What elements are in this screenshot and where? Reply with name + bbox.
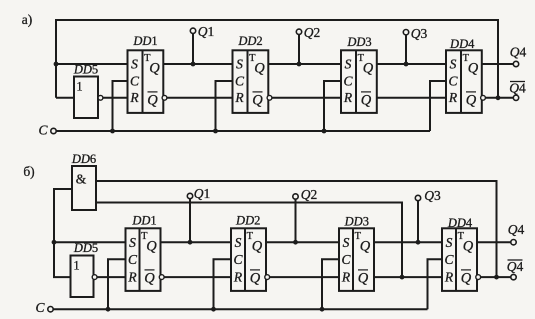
svg-text:Q: Q [363,60,374,76]
svg-text:DD3: DD3 [344,215,369,229]
svg-text:Q: Q [468,60,479,76]
inverter DD5 (circuit b) [71,241,99,297]
svg-text:Q2: Q2 [304,25,321,40]
svg-text:DD5: DD5 [73,241,98,255]
wire Q(DD4) to terminal Q4 (circuit a) [482,63,514,65]
C drop DD4 (circuit b) [428,259,443,309]
C drop DD3 (circuit b) [322,259,339,309]
svg-text:Q1: Q1 [198,24,215,39]
terminal Q1 (circuit b) [187,186,210,242]
svg-text:R: R [233,269,243,284]
svg-text:R: R [341,269,351,284]
svg-text:C: C [38,123,48,138]
wire Q(DD3) to S(DD4) (circuit b) [374,241,442,243]
terminal Q4-bar (circuit b) [507,259,524,280]
terminal C (circuit a) [38,123,56,138]
terminal Q4 (circuit a) [510,45,527,67]
svg-text:Q: Q [146,238,157,254]
wire Q(DD1) to S(DD2) (circuit b) [161,241,232,243]
svg-text:R: R [234,90,244,105]
junction at Q4-bar wire (circuit a) [496,95,501,100]
svg-text:DD1: DD1 [132,34,157,48]
svg-text:C: C [444,252,454,267]
svg-text:Q: Q [360,238,371,254]
wire Q-bar(DD3) to R(DD4) (circuit a) [377,97,446,99]
junction DD6 upper input at Q4-bar wire (circuit b) [494,275,499,280]
svg-text:Q: Q [144,270,155,286]
svg-text:б): б) [23,164,34,179]
wire Q-bar(DD3) to R(DD4) (circuit b) [374,276,442,278]
svg-text:DD2: DD2 [237,34,262,48]
svg-text:&: & [76,172,87,187]
terminal Q2 (circuit a) [296,25,320,64]
flip-flop DD1 b [126,213,165,291]
svg-text:C: C [448,74,458,89]
terminal Q4-bar (circuit a) [509,81,526,101]
wire DD5 output to R of DD1 (circuit a) [103,97,128,99]
svg-text:Q: Q [252,92,263,108]
svg-text:S: S [446,235,453,250]
wire into DD5 input (circuit a) [56,97,74,99]
wire DD6 upper input from Q4 bar (circuit b) [96,181,497,277]
junction S branch (circuit b) [52,240,57,245]
svg-text:R: R [127,269,137,284]
svg-text:а): а) [22,12,33,27]
junction C drop DD3 (circuit b) [320,307,325,312]
svg-text:R: R [343,90,353,105]
wire Q-bar(DD4) to terminal Q4-bar (circuit a) [485,97,513,99]
svg-text:S: S [450,57,457,72]
wire DD6 output to S(DD1) and DD5 (circuit b) [54,189,72,277]
wire Q(DD1) to S(DD2) (circuit a) [163,63,232,65]
svg-text:Q: Q [461,270,472,286]
svg-text:Q2: Q2 [301,187,318,202]
svg-text:DD3: DD3 [346,35,371,49]
junction Q3 (circuit b) [416,240,421,245]
svg-text:DD6: DD6 [71,152,96,166]
svg-text:Q4: Q4 [507,259,524,274]
wire S input of DD1 (circuit a) [56,63,128,65]
svg-text:1: 1 [73,259,79,273]
C drop DD1 (circuit a) [113,81,128,131]
C drop DD2 (circuit b) [214,259,232,309]
junction DD6 lower input at Q3-bar wire (circuit b) [400,275,405,280]
svg-text:1: 1 [76,80,82,94]
wire Q(DD2) to S(DD3) (circuit a) [268,63,341,65]
svg-text:Q4: Q4 [510,45,527,60]
wire Q-bar(DD2) to R(DD3) (circuit a) [272,97,341,99]
svg-text:R: R [444,269,454,284]
wire DD5 output to R of DD1 (circuit b) [97,276,126,278]
svg-text:C: C [341,252,351,267]
flip-flop DD3 a [341,35,377,113]
wire feedback: Q4-bar to top bus (circuit a) [56,20,498,98]
svg-text:Q: Q [147,92,158,108]
C drop DD2 (circuit a) [216,81,233,131]
svg-text:DD5: DD5 [73,63,98,77]
svg-text:DD4: DD4 [449,37,475,51]
svg-text:S: S [129,235,136,250]
svg-text:DD1: DD1 [131,213,156,227]
junction Q2 (circuit a) [297,62,302,67]
svg-text:C: C [128,252,138,267]
svg-text:Q: Q [361,92,372,108]
flip-flop DD2 a [233,34,272,113]
flip-flop DD2 b [231,213,270,291]
junction C drop DD2 (circuit a) [213,129,218,134]
terminal Q4 (circuit b) [508,222,525,245]
inverter DD5 (circuit a) [73,63,103,119]
flip-flop DD4 a [446,37,485,113]
wire Q-bar(DD1) to R(DD2) (circuit a) [167,97,233,99]
svg-text:Q: Q [254,60,265,76]
junction C drop DD1 (circuit b) [106,307,111,312]
svg-text:Q3: Q3 [424,188,441,203]
junction Q2 (circuit b) [293,240,298,245]
wire Q(DD4) to terminal Q4 (circuit b) [477,241,511,243]
junction C drop DD1 (circuit a) [110,129,115,134]
junction Q3 (circuit a) [404,62,409,67]
clock bus wire (circuit b) [53,308,428,310]
svg-text:S: S [131,57,138,72]
junction C drop DD3 (circuit a) [322,129,327,134]
flip-flop DD1 a [128,34,167,113]
terminal Q2 (circuit b) [293,187,317,242]
label a) [22,12,33,27]
terminal Q1 (circuit a) [190,24,214,64]
junction Q1 (circuit a) [191,62,196,67]
junction at S branch on left vertical (circuit a) [54,62,59,67]
terminal Q3 (circuit b) [415,188,441,242]
svg-text:C: C [130,74,140,89]
svg-text:Q3: Q3 [411,26,428,41]
terminal Q3 (circuit a) [403,26,427,64]
C drop DD1 (circuit b) [108,259,126,309]
svg-text:C: C [233,252,243,267]
C drop DD4 (circuit a) [430,81,446,131]
C drop DD3 (circuit a) [324,81,341,131]
svg-text:Q4: Q4 [509,81,526,96]
svg-text:Q1: Q1 [194,186,211,201]
flip-flop DD4 b [442,216,481,291]
wire DD6 lower input from Q3 bar (circuit b) [96,203,402,278]
svg-text:Q: Q [252,238,263,254]
svg-text:Q: Q [250,270,261,286]
wire Q(DD2) to S(DD3) (circuit b) [266,241,339,243]
svg-text:C: C [343,74,353,89]
svg-text:S: S [345,57,352,72]
svg-text:S: S [235,235,242,250]
svg-text:R: R [448,90,458,105]
wire Q-bar(DD1) to R(DD2) (circuit b) [164,276,231,278]
svg-text:C: C [35,300,45,315]
wire Q-bar(DD2) to R(DD3) (circuit b) [270,276,340,278]
label b) [23,164,34,179]
svg-text:Q: Q [463,238,474,254]
junction Q1 (circuit b) [188,240,193,245]
wire Q(DD3) to S(DD4) (circuit a) [377,63,446,65]
svg-text:Q: Q [149,60,160,76]
svg-text:S: S [236,57,243,72]
svg-text:Q: Q [358,270,369,286]
svg-text:Q4: Q4 [508,222,525,237]
terminal C (circuit b) [35,300,53,315]
wire S input of DD1 (circuit b) [54,241,126,243]
flip-flop DD3 b [339,215,374,291]
clock bus wire (circuit a) [56,130,430,132]
junction C drop DD2 (circuit b) [211,307,216,312]
svg-text:S: S [343,235,350,250]
svg-text:DD2: DD2 [235,213,260,227]
AND gate DD6 (circuit b) [71,152,96,210]
svg-text:R: R [129,90,139,105]
svg-text:Q: Q [466,92,477,108]
svg-text:C: C [235,74,245,89]
wire Q-bar(DD4) to terminal Q4-bar (circuit b) [481,276,512,278]
